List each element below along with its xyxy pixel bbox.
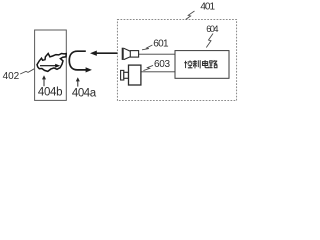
svg-text:401: 401 [200,2,215,13]
text "control circuit" (hand-drawn CJK 控制电路) [184,60,217,68]
svg-text:603: 603 [154,59,170,70]
light receiver icon 603 [121,65,141,85]
light emitter icon 601 [122,48,139,60]
pointer arrow for 404a [76,77,80,86]
reflected light u-turn arrow 404a [69,51,92,72]
leader line for 603 [143,65,153,70]
char 路 [210,60,218,68]
char 电 [202,60,208,68]
scan direction arrow inside blob [40,64,60,68]
leader line for 402 [20,69,34,74]
control circuit box 604 [175,51,229,79]
svg-text:404b: 404b [38,87,63,99]
scanning spot blob 404b [37,54,66,72]
svg-text:601: 601 [153,39,169,50]
svg-text:402: 402 [3,71,20,82]
leader line for 604 [206,34,213,48]
wire from receiver 603 to control circuit 604 [141,71,175,73]
target object box 402 [35,30,67,100]
leader line for 601 [142,45,152,50]
pointer arrow for 404b [42,75,46,86]
device enclosure box 401 [117,20,236,101]
wire from emitter 601 to control circuit 604 [139,53,175,55]
leader line for 401 [186,11,195,20]
svg-text:404a: 404a [72,87,97,99]
char 控 [184,60,192,68]
char 制 [193,60,200,68]
emitted light beam arrow (right to left) [90,51,117,56]
svg-text:604: 604 [206,24,218,34]
